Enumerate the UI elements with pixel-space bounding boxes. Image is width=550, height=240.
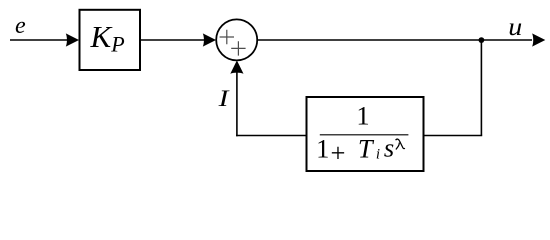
fraction bar — [320, 134, 409, 136]
wire: KP to summing junction — [140, 39, 205, 41]
node: junction dot on output line — [479, 37, 485, 43]
arrowhead into KP — [66, 33, 79, 46]
wire: feedback row left segment out of block — [236, 135, 306, 137]
svg-text:1+Tis: 1+Tis — [316, 132, 394, 167]
arrowhead into summing junction — [203, 33, 216, 46]
svg-text:KP: KP — [90, 19, 125, 56]
wire: summing junction to output — [257, 39, 532, 41]
op: summing junction U1 (circle) — [216, 19, 257, 60]
arrowhead into summing junction bottom — [230, 60, 243, 73]
svg-text:u: u — [508, 14, 522, 41]
svg-text:1: 1 — [356, 100, 369, 130]
block KP — [80, 10, 141, 70]
wire: node down to feedback row — [480, 40, 482, 136]
svg-text:e: e — [15, 13, 26, 39]
plus sign (west input) — [220, 30, 234, 44]
arrowhead output u — [532, 33, 545, 46]
value label exponent lambda (drawn) — [396, 139, 405, 149]
wire: feedback row right segment into block — [424, 135, 483, 137]
svg-text:I: I — [217, 86, 230, 112]
wire: up into summing junction — [236, 72, 238, 136]
plus sign (south input) — [231, 41, 245, 55]
wire: input e to KP block — [10, 39, 68, 41]
block 1/(1+Ti s^lambda) — [307, 97, 424, 171]
